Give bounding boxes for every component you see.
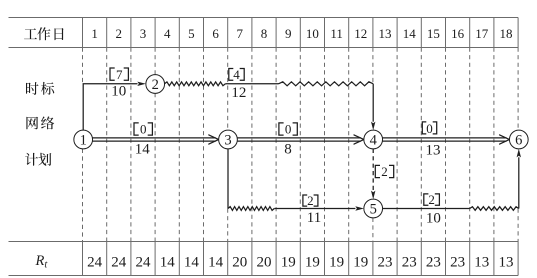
svg-text:0: 0 [140,122,147,137]
svg-text:2: 2 [152,77,159,93]
svg-text:10: 10 [111,84,126,100]
svg-text:24: 24 [87,254,103,270]
svg-text:23: 23 [450,254,465,270]
svg-text:8: 8 [284,142,292,158]
label 工作日 [24,27,64,40]
svg-text:14: 14 [135,142,151,158]
svg-text:24: 24 [136,254,152,270]
svg-text:5: 5 [188,26,195,41]
label [4] [229,67,244,82]
svg-text:19: 19 [329,254,344,270]
node 6 [509,130,528,149]
svg-text:3: 3 [224,133,231,149]
svg-text:16: 16 [451,26,465,41]
svg-text:1: 1 [80,133,87,149]
svg-text:9: 9 [285,26,292,41]
svg-text:14: 14 [160,254,176,270]
svg-text:14: 14 [184,254,200,270]
wire: dummy activity 4-5 dashed [371,149,375,199]
svg-text:7: 7 [116,67,123,82]
svg-text:13: 13 [379,26,392,41]
svg-text:10: 10 [306,26,319,41]
svg-text:23: 23 [378,254,393,270]
svg-text:11: 11 [307,210,321,226]
svg-text:0: 0 [426,121,433,136]
svg-text:2: 2 [381,164,388,179]
svg-text:14: 14 [208,254,224,270]
svg-text:13: 13 [426,142,441,158]
label 时标 [26,82,54,95]
svg-text:2: 2 [116,26,123,41]
svg-text:14: 14 [403,26,417,41]
day numbers 1-18 [91,26,512,41]
node 4 [364,130,383,149]
svg-text:17: 17 [475,26,489,41]
label [0] [279,122,297,137]
wire: critical activity 1-3 double line [93,135,219,144]
svg-text:10: 10 [426,210,441,226]
label [2] [424,192,440,207]
svg-text:6: 6 [212,26,219,41]
svg-text:23: 23 [402,254,417,270]
label 网络 [26,116,54,129]
node 1 [74,130,93,149]
Rt row horizontal rules [9,242,519,276]
svg-text:8: 8 [261,26,268,41]
svg-text:24: 24 [111,254,127,270]
label [7] [110,67,128,82]
svg-text:12: 12 [231,85,246,101]
label [0] [422,121,436,136]
wire: activity 1-2 rise and run [83,82,146,131]
svg-text:11: 11 [330,26,343,41]
svg-text:20: 20 [232,254,247,270]
label [2] [303,193,318,208]
svg-text:2: 2 [428,192,435,207]
node 2 [146,75,165,94]
svg-text:12: 12 [354,26,367,41]
svg-text:18: 18 [500,26,513,41]
svg-text:5: 5 [370,202,377,218]
header row horizontal rules [9,18,519,48]
wire: activity 3-5 drop, wave and run [228,149,364,211]
label 计划 [25,153,51,166]
wire: critical activity 3-4 double line [237,135,364,144]
dashed time gridlines [83,48,519,242]
svg-text:4: 4 [233,67,240,82]
svg-text:Rt: Rt [35,253,49,271]
svg-text:13: 13 [499,254,514,270]
svg-text:23: 23 [426,254,441,270]
svg-text:7: 7 [237,26,244,41]
label [2] [375,164,393,179]
svg-text:4: 4 [164,26,171,41]
svg-text:1: 1 [91,26,98,41]
svg-text:13: 13 [474,254,489,270]
label [0] [134,122,152,137]
svg-text:19: 19 [281,254,296,270]
svg-text:19: 19 [353,254,368,270]
svg-text:3: 3 [140,26,147,41]
header column separators [83,18,519,48]
wire: activity 2-4 with free-float waves [165,82,376,130]
node 3 [219,130,238,149]
node 5 [364,199,383,218]
svg-text:20: 20 [257,254,272,270]
wire: critical activity 4-6 double line [383,135,510,144]
svg-text:2: 2 [307,193,314,208]
Rt column separators [83,242,519,276]
svg-text:4: 4 [370,133,378,149]
svg-text:0: 0 [285,122,292,137]
Rt values [87,254,513,270]
wire: activity 5-6 run, wave and rise [383,149,522,211]
svg-text:19: 19 [305,254,320,270]
svg-text:15: 15 [427,26,440,41]
svg-text:6: 6 [515,133,522,149]
